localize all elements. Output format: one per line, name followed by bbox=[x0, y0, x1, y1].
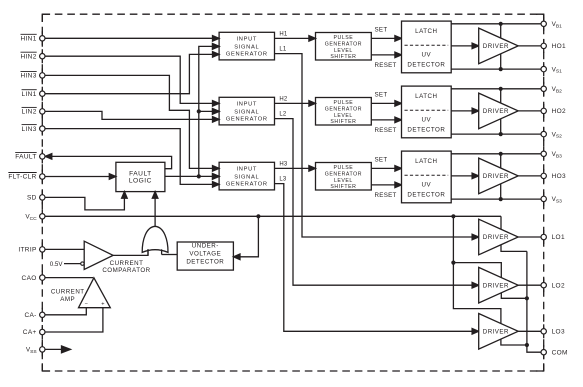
svg-text:LO1: LO1 bbox=[552, 234, 565, 241]
svg-text:INPUT: INPUT bbox=[237, 101, 258, 107]
svg-text:UV: UV bbox=[422, 182, 432, 189]
svg-text:LO3: LO3 bbox=[552, 329, 565, 336]
svg-text:DETECTOR: DETECTOR bbox=[407, 191, 445, 198]
svg-text:COM: COM bbox=[552, 349, 568, 356]
svg-text:SET: SET bbox=[375, 26, 388, 33]
svg-text:GENERATOR: GENERATOR bbox=[325, 106, 362, 112]
svg-text:CA+: CA+ bbox=[23, 329, 37, 336]
svg-text:GENERATOR: GENERATOR bbox=[226, 117, 268, 123]
svg-text:GENERATOR: GENERATOR bbox=[325, 171, 362, 177]
svg-text:LEVEL: LEVEL bbox=[334, 113, 353, 119]
svg-text:DRIVER: DRIVER bbox=[483, 108, 509, 115]
svg-text:SIGNAL: SIGNAL bbox=[234, 174, 259, 180]
svg-text:RESET: RESET bbox=[375, 192, 397, 199]
svg-text:PULSE: PULSE bbox=[334, 100, 354, 106]
svg-text:LATCH: LATCH bbox=[415, 158, 437, 165]
svg-text:HO1: HO1 bbox=[552, 43, 566, 50]
svg-text:H1: H1 bbox=[279, 32, 288, 38]
svg-text:L3: L3 bbox=[279, 177, 287, 183]
svg-text:HO3: HO3 bbox=[552, 173, 566, 180]
svg-text:LATCH: LATCH bbox=[415, 28, 437, 35]
svg-text:PULSE: PULSE bbox=[334, 35, 354, 41]
svg-text:SHIFTER: SHIFTER bbox=[330, 184, 356, 190]
svg-text:FAULT: FAULT bbox=[129, 170, 152, 177]
svg-text:DETECTOR: DETECTOR bbox=[186, 259, 224, 266]
svg-text:SHIFTER: SHIFTER bbox=[330, 119, 356, 125]
svg-text:SD: SD bbox=[27, 195, 37, 202]
svg-text:LEVEL: LEVEL bbox=[334, 178, 353, 184]
svg-text:L1: L1 bbox=[279, 47, 287, 53]
svg-text:INPUT: INPUT bbox=[237, 36, 258, 42]
svg-text:PULSE: PULSE bbox=[334, 165, 354, 171]
svg-text:VOLTAGE: VOLTAGE bbox=[189, 251, 221, 258]
svg-text:DRIVER: DRIVER bbox=[483, 234, 509, 241]
svg-text:SET: SET bbox=[375, 156, 388, 163]
svg-text:0.5V: 0.5V bbox=[50, 261, 64, 268]
svg-text:FLT-CLR: FLT-CLR bbox=[8, 174, 36, 181]
svg-text:GENERATOR: GENERATOR bbox=[226, 182, 268, 188]
svg-text:CURRENT: CURRENT bbox=[51, 289, 85, 296]
svg-text:HIN3: HIN3 bbox=[20, 73, 36, 80]
svg-text:DRIVER: DRIVER bbox=[483, 173, 509, 180]
svg-text:RESET: RESET bbox=[375, 127, 397, 134]
svg-text:SHIFTER: SHIFTER bbox=[330, 54, 356, 60]
svg-text:FAULT: FAULT bbox=[15, 154, 37, 161]
svg-text:H3: H3 bbox=[279, 162, 288, 168]
svg-text:INPUT: INPUT bbox=[237, 166, 258, 172]
svg-text:H2: H2 bbox=[279, 97, 288, 103]
svg-text:DRIVER: DRIVER bbox=[483, 43, 509, 50]
svg-text:UNDER-: UNDER- bbox=[192, 243, 219, 250]
svg-text:CAO: CAO bbox=[22, 275, 37, 282]
svg-text:LO2: LO2 bbox=[552, 282, 565, 289]
svg-text:HIN1: HIN1 bbox=[20, 36, 36, 43]
svg-text:SIGNAL: SIGNAL bbox=[234, 44, 259, 50]
svg-text:UV: UV bbox=[422, 117, 432, 124]
svg-text:LIN2: LIN2 bbox=[22, 109, 37, 116]
svg-text:ITRIP: ITRIP bbox=[18, 247, 36, 254]
svg-text:GENERATOR: GENERATOR bbox=[325, 41, 362, 47]
svg-text:GENERATOR: GENERATOR bbox=[226, 52, 268, 58]
svg-text:LIN1: LIN1 bbox=[22, 91, 37, 98]
svg-text:DRIVER: DRIVER bbox=[483, 329, 509, 336]
svg-text:LOGIC: LOGIC bbox=[129, 178, 152, 185]
svg-text:DETECTOR: DETECTOR bbox=[407, 126, 445, 133]
svg-text:CA-: CA- bbox=[24, 312, 36, 319]
svg-text:−: − bbox=[85, 302, 88, 308]
svg-text:UV: UV bbox=[422, 52, 432, 59]
svg-text:AMP: AMP bbox=[60, 296, 75, 303]
svg-text:HO2: HO2 bbox=[552, 108, 566, 115]
svg-text:SIGNAL: SIGNAL bbox=[234, 109, 259, 115]
svg-text:LIN3: LIN3 bbox=[22, 126, 37, 133]
svg-text:LATCH: LATCH bbox=[415, 93, 437, 100]
svg-text:DETECTOR: DETECTOR bbox=[407, 61, 445, 68]
svg-text:RESET: RESET bbox=[375, 62, 397, 69]
svg-text:SET: SET bbox=[375, 91, 388, 98]
svg-text:CURRENT: CURRENT bbox=[110, 260, 144, 267]
svg-text:COMPARATOR: COMPARATOR bbox=[102, 267, 150, 274]
svg-text:DRIVER: DRIVER bbox=[483, 282, 509, 289]
svg-text:LEVEL: LEVEL bbox=[334, 48, 353, 54]
svg-text:L2: L2 bbox=[279, 112, 287, 118]
svg-text:HIN2: HIN2 bbox=[20, 53, 36, 60]
svg-text:+: + bbox=[101, 302, 104, 308]
